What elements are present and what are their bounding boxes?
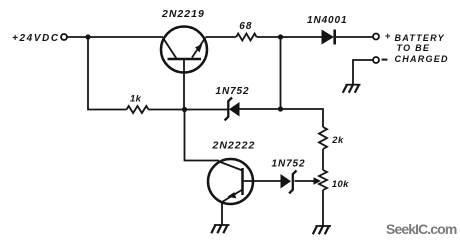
svg-text:CHARGED: CHARGED bbox=[395, 54, 449, 64]
svg-text:+: + bbox=[385, 31, 391, 42]
svg-text:1N4001: 1N4001 bbox=[307, 15, 347, 26]
svg-text:2N2222: 2N2222 bbox=[212, 140, 256, 152]
ground potentiometer bbox=[313, 226, 331, 234]
node junction dot on zener rail bbox=[278, 106, 283, 111]
svg-text:2k: 2k bbox=[331, 135, 344, 145]
resistor 1k bbox=[127, 106, 149, 113]
terminal battery - bbox=[373, 57, 379, 63]
wire 68 to 1N4001 bbox=[257, 36, 322, 38]
node junction dot Q1 base bbox=[182, 107, 187, 112]
svg-text:BATTERY: BATTERY bbox=[395, 33, 445, 43]
wiper arrowhead bbox=[314, 177, 322, 184]
wire zener to pot wiper arrow bbox=[295, 180, 316, 182]
diode 1N4001 bbox=[322, 30, 335, 45]
wire 1k to Q1 base node and zener D2 bbox=[149, 109, 228, 111]
label minus bbox=[382, 59, 388, 61]
node junction dot above zener rail bbox=[278, 34, 283, 39]
svg-text:1k: 1k bbox=[130, 93, 142, 104]
wire +24V rail to Q1 collector bbox=[67, 36, 163, 38]
svg-text:TO BE: TO BE bbox=[397, 43, 431, 53]
wire 1N4001 to + terminal bbox=[336, 36, 373, 38]
wire - terminal to ground bbox=[353, 60, 373, 85]
wire node down to zener rail bbox=[280, 37, 282, 109]
terminal battery + bbox=[373, 34, 379, 40]
svg-text:68: 68 bbox=[239, 21, 252, 32]
svg-text:+24VDC: +24VDC bbox=[12, 33, 60, 44]
svg-text:10k: 10k bbox=[332, 179, 349, 190]
transistor Q2 2N2222 bbox=[208, 159, 253, 204]
terminal +24VDC bbox=[61, 34, 67, 40]
wire 10k to ground bbox=[322, 190, 324, 226]
resistor 68 bbox=[236, 34, 256, 41]
node junction dot on +24V rail bbox=[85, 34, 90, 39]
wire down from +24V rail to 1k bbox=[88, 37, 127, 110]
svg-text:2N2219: 2N2219 bbox=[161, 8, 205, 20]
zener 1N752 upper bbox=[225, 98, 240, 121]
wire Q1 emitter to 68 bbox=[206, 36, 237, 38]
wire zener rail to 2k bbox=[240, 109, 324, 127]
transistor Q1 2N2219 bbox=[161, 27, 207, 110]
wire Q1 base node to Q2 collector bbox=[185, 110, 220, 161]
resistor 2k bbox=[319, 127, 327, 149]
svg-text:1N752: 1N752 bbox=[216, 86, 250, 97]
potentiometer 10k bbox=[319, 170, 327, 190]
zener 1N752 lower bbox=[281, 171, 297, 194]
wire 2k to 10k bbox=[322, 149, 324, 170]
svg-text:SeekIC.com: SeekIC.com bbox=[386, 221, 457, 237]
wire Q2 emitter to ground bbox=[221, 202, 223, 226]
wire Q2 base to zener bbox=[243, 180, 282, 182]
ground Q2 emitter bbox=[211, 225, 229, 233]
ground battery negative bbox=[343, 85, 361, 93]
svg-text:1N752: 1N752 bbox=[272, 159, 306, 170]
